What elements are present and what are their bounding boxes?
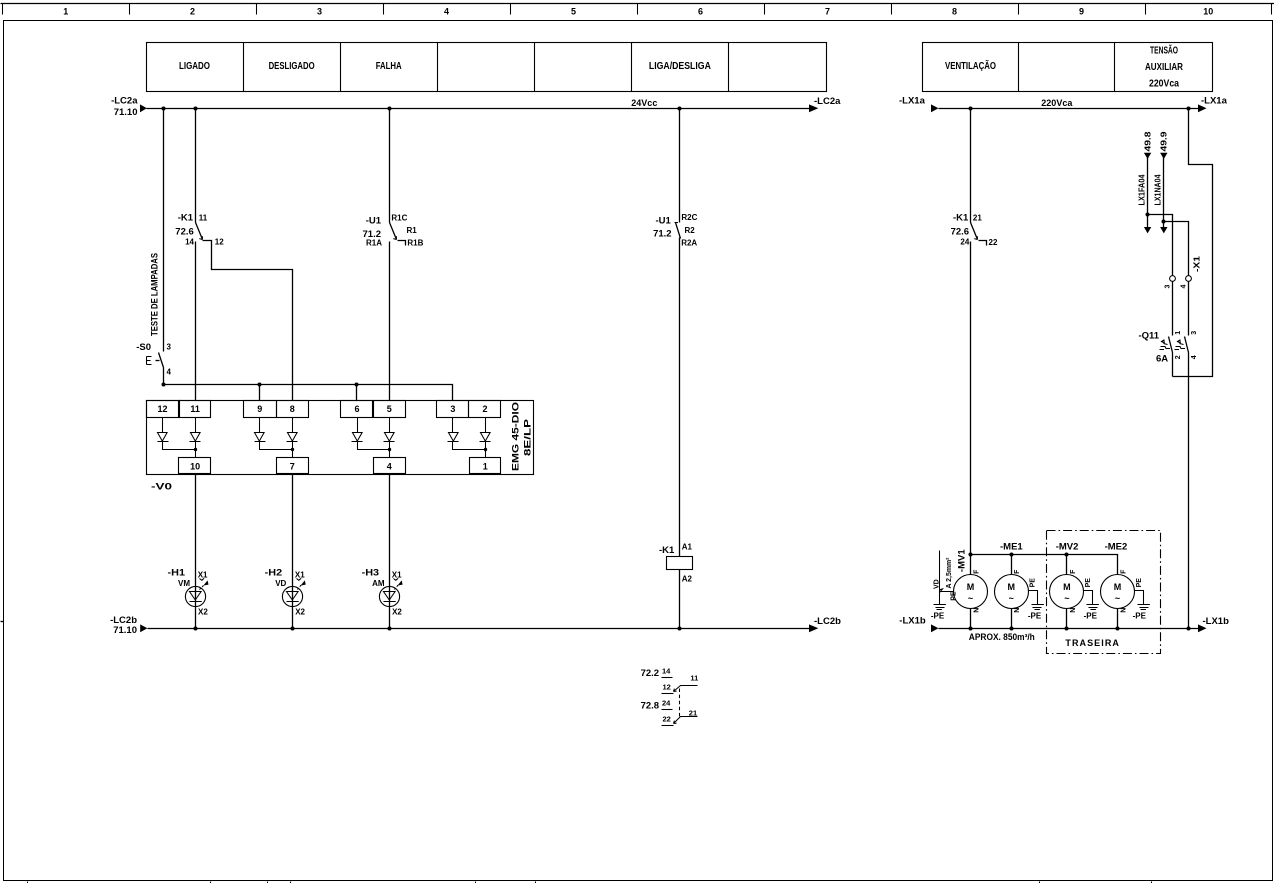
svg-text:TRASEIRA: TRASEIRA [1065,638,1119,648]
svg-text:21: 21 [973,213,982,222]
svg-text:-H1: -H1 [168,568,186,579]
svg-text:14: 14 [662,666,671,675]
svg-text:1: 1 [483,462,488,472]
svg-text:VENTILAÇÃO: VENTILAÇÃO [945,59,996,72]
svg-text:72.8: 72.8 [641,701,660,712]
svg-text:-ME2: -ME2 [1105,542,1128,553]
svg-text:3: 3 [1191,331,1198,335]
svg-text:LX1NA04: LX1NA04 [1154,174,1163,205]
svg-text:-H2: -H2 [265,568,283,579]
svg-text:220Vca: 220Vca [1041,98,1073,108]
svg-text:-MV1: -MV1 [957,549,968,572]
svg-text:22: 22 [663,714,671,723]
svg-text:-PE: -PE [931,611,945,620]
svg-text:-U1: -U1 [655,215,671,226]
svg-text:-X1: -X1 [1193,255,1202,272]
svg-text:X1: X1 [198,571,208,580]
svg-text:EMG 45-DIO: EMG 45-DIO [511,402,522,471]
svg-text:7: 7 [290,462,295,472]
svg-text:X2: X2 [392,607,402,616]
svg-text:VM: VM [178,579,190,588]
svg-text:APROX. 850m³/h: APROX. 850m³/h [969,632,1035,642]
svg-text:3: 3 [450,404,455,414]
svg-text:8: 8 [952,7,957,17]
svg-text:4: 4 [444,7,449,17]
svg-text:49.8: 49.8 [1144,131,1153,152]
svg-text:M: M [1007,582,1015,592]
svg-text:11: 11 [199,213,208,222]
svg-text:R1B: R1B [407,239,423,248]
svg-text:9: 9 [257,404,262,414]
svg-text:PE: PE [1085,578,1092,588]
svg-text:49.9: 49.9 [1160,131,1169,152]
svg-text:-PE: -PE [1028,611,1042,620]
svg-text:X1: X1 [392,571,402,580]
svg-text:X1: X1 [295,571,305,580]
svg-text:VD: VD [275,579,286,588]
svg-text:7: 7 [825,7,830,17]
svg-text:72.6: 72.6 [951,226,970,237]
svg-text:F: F [974,569,981,574]
svg-text:220Vca: 220Vca [1149,79,1179,90]
svg-text:12: 12 [215,238,224,247]
svg-text:2: 2 [482,404,487,414]
svg-text:N: N [974,608,981,613]
svg-text:5: 5 [387,404,392,414]
svg-text:12: 12 [663,683,671,692]
svg-text:-LC2b: -LC2b [814,616,841,627]
svg-text:-LX1b: -LX1b [899,615,926,626]
svg-text:2: 2 [1175,355,1182,359]
svg-text:A2: A2 [682,575,693,584]
svg-text:M: M [967,582,975,592]
svg-text:-PE: -PE [1084,611,1098,620]
svg-text:71.10: 71.10 [113,625,137,636]
svg-text:A 2,5mm²: A 2,5mm² [946,557,953,589]
svg-text:-S0: -S0 [136,342,151,353]
svg-text:3: 3 [167,343,172,352]
svg-text:TENSÃO: TENSÃO [1150,44,1178,57]
svg-text:-K1: -K1 [953,212,969,223]
svg-text:PE: PE [951,591,958,601]
svg-text:4: 4 [1180,285,1187,289]
svg-text:R1: R1 [407,226,418,235]
svg-text:8E/LP: 8E/LP [523,418,534,456]
svg-text:-V0: -V0 [151,482,172,493]
svg-text:21: 21 [689,709,697,718]
svg-text:6: 6 [698,7,703,17]
svg-text:TESTE DE LAMPADAS: TESTE DE LAMPADAS [150,253,161,336]
svg-text:3: 3 [317,7,322,17]
svg-text:-LC2a: -LC2a [814,96,841,107]
svg-text:F: F [1070,569,1077,574]
svg-text:~: ~ [968,594,973,604]
svg-text:-LC2a: -LC2a [111,95,138,106]
svg-text:F: F [1014,569,1021,574]
svg-text:9: 9 [1079,7,1084,17]
svg-text:PE: PE [1136,578,1143,588]
svg-text:-K1: -K1 [178,212,194,223]
svg-text:~: ~ [1064,594,1069,604]
svg-text:FALHA: FALHA [376,61,402,72]
svg-text:LIGADO: LIGADO [179,61,210,72]
svg-text:3: 3 [1165,285,1172,289]
svg-text:LIGA/DESLIGA: LIGA/DESLIGA [649,61,711,72]
svg-text:72.6: 72.6 [175,226,194,237]
svg-text:R2A: R2A [681,238,697,247]
svg-text:8: 8 [290,404,295,414]
svg-text:VD: VD [933,579,940,589]
svg-text:6A: 6A [1156,354,1168,365]
svg-text:24Vcc: 24Vcc [631,98,657,108]
svg-text:6: 6 [354,404,359,414]
svg-text:R2: R2 [685,226,696,235]
svg-text:4: 4 [167,368,172,377]
svg-text:LX1FA04: LX1FA04 [1138,174,1147,206]
svg-text:11: 11 [690,674,698,683]
svg-text:1: 1 [1175,331,1182,335]
svg-text:4: 4 [1191,355,1198,359]
svg-text:14: 14 [185,238,194,247]
svg-text:N: N [1070,608,1077,613]
svg-text:AM: AM [372,579,385,588]
svg-text:AUXILIAR: AUXILIAR [1145,62,1184,73]
svg-text:2: 2 [190,7,195,17]
svg-text:PE: PE [1030,578,1037,588]
svg-text:M: M [1114,582,1122,592]
svg-text:-LX1b: -LX1b [1203,616,1230,627]
svg-text:~: ~ [1009,594,1014,604]
svg-text:72.2: 72.2 [641,668,660,679]
svg-text:1: 1 [63,7,68,17]
svg-text:-PE: -PE [1133,611,1147,620]
svg-text:71.2: 71.2 [653,229,672,240]
svg-text:R1C: R1C [391,213,407,222]
svg-text:-H3: -H3 [362,568,380,579]
svg-text:-LX1a: -LX1a [1201,95,1228,106]
svg-text:~: ~ [1115,594,1120,604]
svg-text:-LX1a: -LX1a [899,95,926,106]
svg-text:5: 5 [571,7,576,17]
svg-text:24: 24 [662,699,671,708]
svg-text:-U1: -U1 [366,216,382,227]
svg-text:R1A: R1A [366,238,382,247]
svg-text:10: 10 [1203,7,1213,17]
svg-text:24: 24 [960,238,969,247]
svg-text:4: 4 [387,462,392,472]
svg-text:X2: X2 [295,607,305,616]
svg-text:10: 10 [190,462,200,472]
svg-text:DESLIGADO: DESLIGADO [269,61,315,72]
svg-text:-Q11: -Q11 [1139,331,1160,342]
svg-text:12: 12 [157,404,167,414]
svg-text:N: N [1121,608,1128,613]
svg-text:X2: X2 [198,607,208,616]
svg-text:N: N [1014,608,1021,613]
svg-text:M: M [1063,582,1071,592]
svg-text:-K1: -K1 [659,545,675,556]
svg-text:11: 11 [190,404,200,414]
svg-text:22: 22 [989,238,998,247]
svg-text:-ME1: -ME1 [1000,542,1023,553]
svg-text:-MV2: -MV2 [1056,542,1079,553]
svg-text:F: F [1121,569,1128,574]
svg-text:A1: A1 [682,542,693,551]
svg-text:71.10: 71.10 [114,107,138,118]
svg-text:R2C: R2C [681,213,697,222]
